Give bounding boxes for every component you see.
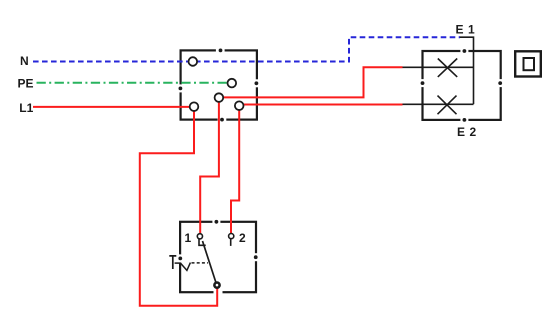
wire: switch contact 1 to junction terminal (red) — [200, 102, 219, 234]
lamp box (luminaire outlet) — [420, 49, 503, 122]
switch actuator (T handle with spring link) — [169, 256, 208, 271]
svg-text:E 2: E 2 — [457, 125, 477, 139]
wire: PE bus (green dash-dot) — [37, 82, 228, 84]
wire: junction terminal to lamp E1 (red) — [224, 67, 403, 97]
switch contact 2 — [229, 234, 234, 246]
socket outlet symbol — [515, 51, 541, 76]
terminal (N) in junction box — [189, 57, 198, 66]
svg-text:PE: PE — [18, 76, 34, 90]
wire: N bus with riser to lamps (blue dashed) — [33, 37, 460, 61]
switch box S1 — [178, 220, 258, 295]
switch pivot — [214, 283, 219, 288]
switch lever — [203, 241, 217, 285]
wire: junction terminal to lamp E2 (red) — [244, 104, 403, 106]
wire: L1 terminal to switch common (red) — [140, 111, 217, 306]
svg-text:1: 1 — [185, 231, 192, 245]
svg-text:L1: L1 — [19, 101, 33, 115]
lamp E2 — [403, 96, 474, 115]
wire: lamps return to N (black) — [460, 37, 474, 104]
wire: switch contact 2 to junction terminal (red) — [231, 110, 239, 234]
terminal (to lamp E2 / switch 2) in junction box — [235, 101, 244, 110]
terminal (L1) in junction box — [190, 102, 199, 111]
svg-text:N: N — [20, 54, 29, 68]
lamp E1 — [403, 59, 474, 77]
junction box X1 — [178, 48, 259, 122]
switch contact 1 — [197, 234, 205, 246]
svg-text:2: 2 — [239, 231, 246, 245]
terminal (to lamp E1 / switch 1) in junction box — [215, 93, 224, 102]
wire: L1 feed (red) — [33, 106, 190, 108]
svg-text:E 1: E 1 — [456, 23, 476, 37]
terminal (PE) in junction box — [228, 79, 237, 88]
